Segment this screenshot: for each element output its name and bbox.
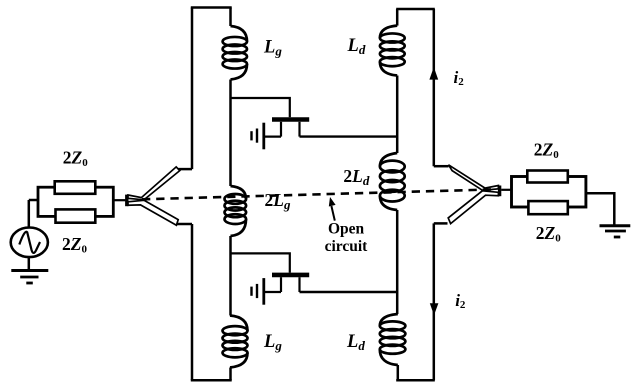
transistor Q2 gate wire <box>231 253 290 272</box>
wire: stub from lower left flare to left column <box>177 223 192 226</box>
label i2 (bottom) <box>455 291 466 311</box>
svg-text:2Z0: 2Z0 <box>534 139 559 161</box>
ground (Q1 source, sideways) <box>252 123 264 150</box>
svg-text:2Lg: 2Lg <box>265 190 291 212</box>
right lower flare <box>448 191 498 224</box>
label i2 (top) <box>454 68 465 88</box>
wire: left column right side segment 1 <box>229 8 232 27</box>
label 2Lg (middle) <box>265 190 291 212</box>
wire: right column left side segment 4 <box>397 365 400 380</box>
resistor 2Z0 (right top) <box>527 171 568 183</box>
wire: right column left side segment 3 <box>396 210 399 314</box>
transistor Q2 source stub <box>280 277 282 292</box>
svg-text:circuit: circuit <box>325 238 369 255</box>
wire: left column right side segment 3 <box>229 236 232 316</box>
ground (right) <box>600 226 631 237</box>
inductor Ld (top) <box>380 26 405 76</box>
inductor Ld (bottom) <box>380 314 406 365</box>
svg-text:2Z0: 2Z0 <box>62 234 87 256</box>
resistor 2Z0 (left top) <box>55 181 96 194</box>
svg-text:i2: i2 <box>454 68 465 88</box>
transistor Q2 drain stub <box>298 277 300 292</box>
svg-text:2Ld: 2Ld <box>343 166 369 188</box>
wire: right tapered-line top edge <box>396 8 435 11</box>
left lower flare <box>128 200 178 225</box>
label 2Z0 (top-right) <box>534 139 559 161</box>
ground (Q2 source, sideways) <box>252 278 264 305</box>
AC source V1 <box>11 228 48 258</box>
svg-text:Lg: Lg <box>263 332 282 353</box>
svg-text:i2: i2 <box>455 291 466 311</box>
svg-text:2Z0: 2Z0 <box>536 223 561 245</box>
svg-text:Ld: Ld <box>346 332 365 353</box>
wire: source to resistor network <box>29 199 38 202</box>
wire: right tick to resistor network <box>501 189 511 191</box>
transistor Q1 source stub <box>280 122 282 137</box>
label Ld (bottom) <box>346 332 365 353</box>
wire: stub from right column to lower right flare <box>434 222 448 225</box>
transistor Q1 gate wire <box>231 98 290 117</box>
resistor 2Z0 (right bottom) <box>528 201 567 214</box>
label Open circuit <box>325 220 369 255</box>
current arrow i2 (top, upward) <box>429 67 438 80</box>
current arrow i2 (bottom, downward) <box>430 303 439 315</box>
wire: Q2 drain to right column <box>300 291 398 293</box>
wire: Q2 source to ground <box>264 291 281 293</box>
wire: stub from right column to upper right flare <box>434 165 449 168</box>
label 2Ld (middle) <box>343 166 369 188</box>
inductor 2Ld (middle) <box>380 153 405 210</box>
wire: stub from upper left flare to left column <box>179 168 193 171</box>
left feed tick <box>125 195 128 207</box>
svg-text:2Z0: 2Z0 <box>63 147 88 169</box>
right upper flare <box>449 165 499 191</box>
wire: left tapered-line left side upper <box>191 8 194 170</box>
left upper flare <box>128 167 180 200</box>
wire: AC source to ground <box>28 257 31 270</box>
resistor 2Z0 (left bottom) <box>56 209 96 222</box>
wire: AC source lead <box>28 200 31 228</box>
wire: left column right side segment 2 <box>229 80 232 187</box>
wire: right tapered-line bottom edge <box>396 379 435 382</box>
wire: left network to flare tick <box>113 199 125 201</box>
wire: Q1 source to ground <box>264 136 281 138</box>
transistor Q2 gate bar <box>272 273 309 278</box>
svg-text:Ld: Ld <box>347 36 366 57</box>
wire: right network to ground <box>586 193 614 224</box>
right feed tick <box>498 186 501 197</box>
label 2Z0 (bottom-left) <box>62 234 87 256</box>
wire: right column right side lower <box>433 223 436 380</box>
inductor Lg (top) <box>223 26 247 80</box>
inductor Lg (bottom) <box>223 316 248 368</box>
wire: left tapered-line top edge <box>191 6 232 9</box>
label Lg (top) <box>263 38 282 59</box>
wire: Q1 drain to right column <box>300 135 398 137</box>
wire: left tapered-line bottom edge <box>191 379 232 382</box>
transistor Q1 drain stub <box>298 122 300 137</box>
wire: right column right side upper <box>433 9 436 166</box>
svg-text:Open: Open <box>328 220 365 237</box>
inductor 2Lg (middle) <box>225 186 247 236</box>
wire: right column left side segment 2 <box>396 76 399 154</box>
label 2Z0 (bottom-right) <box>536 223 561 245</box>
label 2Z0 (top-left) <box>63 147 88 169</box>
resistor 2Z0 network loop (right) <box>512 177 586 208</box>
svg-text:Lg: Lg <box>263 38 282 59</box>
wire: left tapered-line left side lower <box>191 224 194 380</box>
ground (below AC source) <box>11 271 48 284</box>
open circuit pointer arrow <box>331 206 334 221</box>
label Ld (top) <box>347 36 366 57</box>
wire: right column left side segment 1 <box>396 9 399 26</box>
resistor 2Z0 network loop (left) <box>38 187 113 216</box>
wire: left column right side segment 4 <box>229 368 232 381</box>
label Lg (bottom) <box>263 332 282 353</box>
node: virtual open-circuit dashed line <box>142 189 494 199</box>
transistor Q1 gate bar <box>272 117 309 122</box>
